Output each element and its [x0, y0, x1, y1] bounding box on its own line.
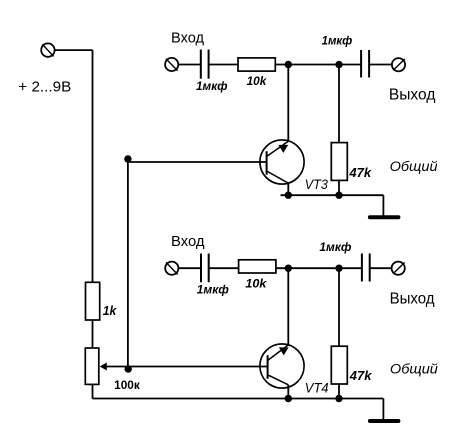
- wire C2 to output terminal: [369, 64, 392, 66]
- svg-text:Общий: Общий: [390, 158, 438, 174]
- node bias bottom junction: [125, 365, 132, 372]
- wire input terminal to C3: [178, 267, 201, 269]
- transistor VT3: [260, 140, 304, 184]
- wire VT3 base: [128, 161, 267, 163]
- resistor 10k stage 1: [238, 58, 275, 71]
- node 47k bottom junction stage 1: [335, 192, 342, 199]
- ground stage 2: [370, 399, 399, 422]
- wire 1k to potentiometer: [92, 320, 94, 348]
- wire input terminal to C1: [178, 64, 201, 66]
- wire 10k to output cap stage 2: [276, 267, 362, 269]
- svg-text:VT3: VT3: [305, 177, 328, 192]
- ground stage 1: [370, 195, 399, 217]
- terminal output stage 2: [392, 262, 405, 275]
- capacitor C4 1mkf: [362, 254, 370, 282]
- svg-text:47k: 47k: [349, 368, 372, 383]
- resistor 47k stage 1: [331, 143, 347, 181]
- node collector junction stage 2: [285, 265, 292, 272]
- wire junction to VT3 emitter: [287, 65, 289, 142]
- svg-text:47k: 47k: [348, 165, 371, 180]
- wire supply terminal to corner: [55, 49, 93, 51]
- wire C4 to output terminal: [370, 267, 392, 269]
- wire bias vertical line: [127, 162, 129, 367]
- svg-text:1мкф: 1мкф: [322, 34, 353, 48]
- terminal input stage 1: [165, 58, 178, 71]
- wire C1 to R 10k: [209, 64, 238, 66]
- wire pot bottom to ground rail: [92, 384, 94, 398]
- wire 47k bottom stage 2: [338, 384, 340, 399]
- wire wiper to VT4 base: [106, 366, 268, 368]
- svg-text:Вход: Вход: [171, 233, 205, 250]
- wire 10k to output cap: [275, 64, 361, 66]
- wire common rail stage 2: [93, 398, 384, 400]
- terminal input stage 2: [165, 262, 178, 275]
- wire junction to VT4 emitter: [287, 268, 289, 345]
- node collector junction stage 1: [285, 61, 292, 68]
- node VT3 collector rail junction: [285, 192, 292, 199]
- capacitor C1 1mkf: [201, 50, 209, 79]
- wire 47k top stage 1: [338, 65, 340, 143]
- potentiometer R2 100k body: [85, 348, 99, 384]
- capacitor C2 1mkf: [361, 50, 369, 78]
- node 47k top junction stage 2: [335, 265, 342, 272]
- svg-text:VT4: VT4: [305, 380, 329, 395]
- node 47k top junction stage 1: [335, 61, 342, 68]
- node 47k bottom junction stage 2: [335, 395, 342, 402]
- svg-text:Выход: Выход: [389, 87, 436, 104]
- svg-text:10k: 10k: [245, 277, 267, 291]
- svg-text:Выход: Выход: [390, 291, 435, 308]
- svg-text:1мкф: 1мкф: [319, 240, 351, 254]
- wire VT4 collector down: [287, 385, 289, 399]
- node VT4 collector rail junction: [285, 395, 292, 402]
- svg-text:10k: 10k: [247, 74, 268, 88]
- wire supply vertical rail: [92, 50, 94, 282]
- svg-text:1мкф: 1мкф: [197, 283, 229, 297]
- wire VT3 collector down: [287, 183, 289, 195]
- resistor R1 1k: [86, 282, 100, 320]
- terminal output stage 1: [392, 58, 405, 71]
- svg-text:Общий: Общий: [390, 360, 438, 376]
- wire common rail stage 1: [281, 194, 384, 196]
- svg-text:1k: 1k: [103, 304, 118, 318]
- svg-text:Вход: Вход: [171, 29, 204, 46]
- svg-text:1мкф: 1мкф: [196, 79, 228, 93]
- transistor VT4: [260, 344, 304, 388]
- capacitor C3 1mkf: [201, 254, 209, 283]
- terminal X1 (+ supply): [41, 43, 54, 56]
- wire 47k bottom stage 1: [338, 180, 340, 195]
- wire 47k top stage 2: [338, 268, 340, 346]
- resistor 10k stage 2: [239, 260, 276, 273]
- node bias top junction: [124, 155, 131, 162]
- wire C3 to R 10k stage 2: [209, 267, 239, 269]
- svg-text:+ 2...9В: + 2...9В: [18, 78, 71, 95]
- svg-text:100к: 100к: [114, 380, 140, 392]
- potentiometer wiper arrow: [100, 363, 107, 371]
- resistor 47k stage 2: [331, 346, 347, 384]
